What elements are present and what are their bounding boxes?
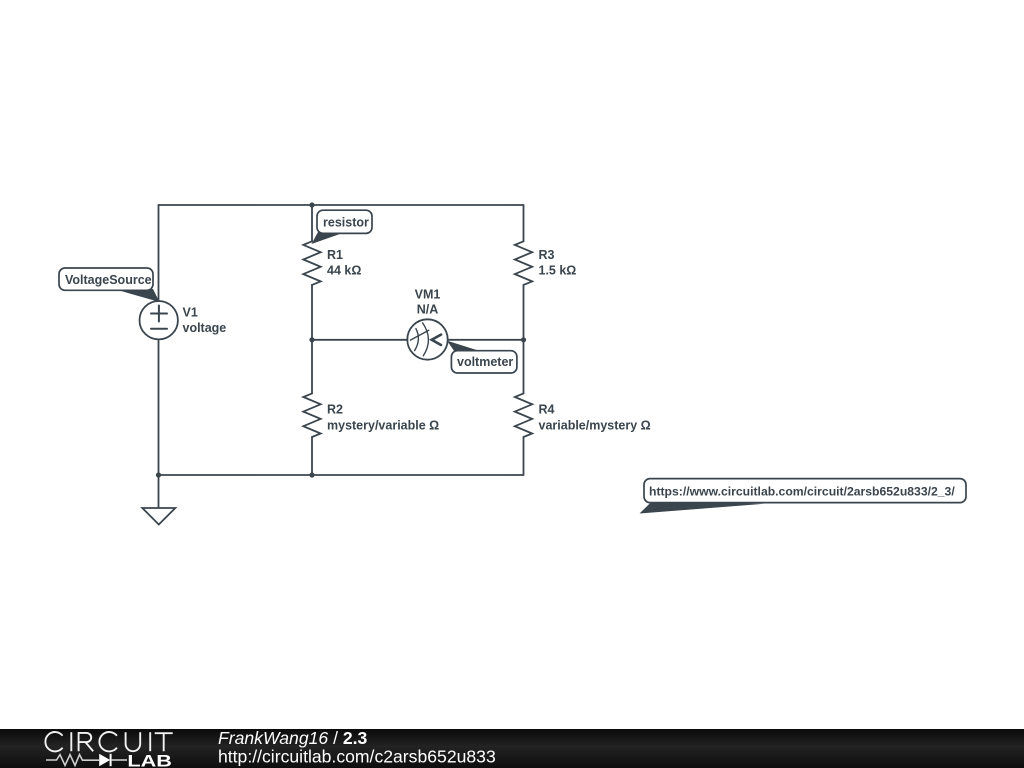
svg-text:V1: V1 bbox=[183, 306, 198, 320]
svg-text:mystery/variable Ω: mystery/variable Ω bbox=[327, 419, 439, 433]
wire right branch bottom bbox=[523, 437, 525, 475]
resistor R2 bbox=[303, 393, 320, 437]
svg-text:R1: R1 bbox=[327, 248, 343, 262]
svg-text:resistor: resistor bbox=[323, 216, 369, 230]
voltage source V1 bbox=[140, 301, 178, 339]
svg-text:R4: R4 bbox=[539, 403, 555, 417]
svg-text:LAB: LAB bbox=[127, 753, 172, 768]
svg-text:http://circuitlab.com/c2arsb65: http://circuitlab.com/c2arsb652u833 bbox=[218, 746, 496, 766]
wire voltmeter right bbox=[448, 339, 524, 341]
wire right branch top bbox=[523, 205, 525, 241]
svg-text:voltage: voltage bbox=[183, 321, 227, 335]
svg-text:voltmeter: voltmeter bbox=[457, 355, 513, 369]
svg-text:VoltageSource: VoltageSource bbox=[65, 273, 152, 287]
wire left branch upper bbox=[158, 205, 160, 301]
svg-text:44 kΩ: 44 kΩ bbox=[327, 264, 361, 278]
svg-text:R3: R3 bbox=[539, 248, 555, 262]
logo resistor-diode squiggle bbox=[46, 754, 127, 766]
svg-text:N/A: N/A bbox=[417, 303, 439, 317]
callout voltmeter bbox=[447, 341, 517, 373]
svg-text:R2: R2 bbox=[327, 403, 343, 417]
logo CIRCUIT wordmark bbox=[45, 732, 172, 751]
voltmeter VM1 bbox=[407, 319, 447, 359]
svg-text:FrankWang16 / 2.3: FrankWang16 / 2.3 bbox=[218, 728, 368, 748]
resistor R1 bbox=[303, 241, 320, 285]
junction node middle branch bbox=[309, 337, 314, 342]
footer bar bbox=[0, 729, 1024, 768]
wire middle branch middle bbox=[311, 285, 313, 394]
wire bottom rail bbox=[159, 474, 524, 476]
svg-text:https://www.circuitlab.com/cir: https://www.circuitlab.com/circuit/2arsb… bbox=[649, 485, 955, 499]
svg-text:1.5 kΩ: 1.5 kΩ bbox=[539, 264, 577, 278]
callout VoltageSource bbox=[59, 268, 160, 302]
svg-text:VM1: VM1 bbox=[415, 288, 441, 302]
junction node bottom left bbox=[156, 472, 161, 477]
junction node bottom middle bbox=[309, 472, 314, 477]
wire right branch middle bbox=[523, 285, 525, 394]
resistor R3 bbox=[515, 241, 532, 285]
junction node right middle bbox=[521, 337, 526, 342]
wire voltmeter left bbox=[312, 339, 407, 341]
resistor R4 bbox=[515, 393, 532, 437]
callout circuit URL bbox=[640, 479, 967, 514]
wire middle branch top bbox=[311, 205, 313, 241]
wire top rail bbox=[159, 204, 524, 206]
ground bbox=[142, 475, 175, 525]
wire middle branch bottom bbox=[311, 437, 313, 475]
wire left branch lower bbox=[158, 340, 160, 476]
callout resistor bbox=[312, 210, 373, 244]
svg-text:variable/mystery Ω: variable/mystery Ω bbox=[539, 419, 651, 433]
junction node top middle bbox=[309, 202, 314, 207]
